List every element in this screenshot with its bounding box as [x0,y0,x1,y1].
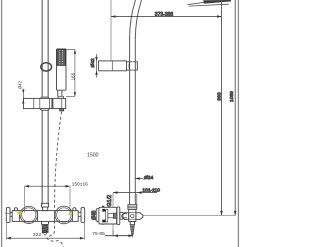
dim 101-110 [113,192,157,194]
left wing [122,213,129,220]
dim 373-386 [110,0,112,61]
escutcheon box [99,207,117,224]
hand shower outline [57,49,67,90]
mixer body [12,211,78,222]
center cross detail [129,211,136,213]
svg-text:Ø48: Ø48 [91,210,97,220]
svg-text:G1/2: G1/2 [107,195,113,207]
yellow indicator left [17,211,22,215]
body division lines [19,211,21,222]
left handle (temperature) [20,206,37,223]
holder end dimension Ø42 [22,89,24,103]
svg-text:933: 933 [217,92,223,100]
hose (dashed curve 1500) [47,112,63,247]
hand shower length dimension [66,49,75,51]
mixer right wall flange [81,208,85,223]
right wing [136,213,143,220]
dim 75-85 [105,235,133,237]
frame border left [1,0,3,247]
svg-text:1089: 1089 [229,91,235,102]
mixer bottom outlet stub [42,221,49,224]
mounting screws [102,209,105,212]
Ø48 arrows [102,206,105,209]
svg-text:Ø24: Ø24 [144,175,154,181]
cross fitting washer stack [128,205,137,210]
shower arm (top right) [187,2,204,4]
dim Ø24 (column) [135,178,143,180]
wall union flange disc (side view) [96,209,99,222]
slide bar (front view column) [41,0,43,205]
hand shower handle neck [58,90,62,96]
holder clamp collar [40,97,49,110]
union nut (side) [117,207,120,225]
mixer left wall flange [6,208,10,223]
column top bend [130,0,136,38]
svg-text:Ø42: Ø42 [17,80,22,89]
svg-text:150±16: 150±16 [72,181,89,187]
svg-text:373-386: 373-386 [155,12,174,18]
svg-text:165: 165 [71,72,76,80]
hatched nipple [113,213,117,219]
cross fitting body [129,209,136,221]
riser column (side view) [129,37,131,205]
svg-text:75-85: 75-85 [92,231,105,237]
reference line (wall datum at mixer) [143,214,236,216]
frame border right [237,0,239,247]
svg-text:Ø42: Ø42 [90,58,96,67]
yellow indicator right [69,212,72,216]
small left circle on body [14,208,17,211]
svg-text:1500: 1500 [87,152,99,158]
outlet hatched nut [42,224,48,232]
holder hose nipple [60,109,64,111]
dim line 933 [221,0,223,215]
overhead shower head edge-on [203,0,231,4]
hand shower spray head (knurled) [57,49,66,65]
bracket clamp on column [127,62,130,70]
dim Ø42 (bracket) [96,54,98,78]
bar foot collar on mixer [42,203,49,207]
mixer left union stub [10,211,14,213]
slider ring [41,63,52,71]
small right circle on body [73,208,76,211]
svg-text:322: 322 [33,232,41,238]
G1/2 leader line [112,193,114,236]
mixer right union stub [78,211,81,213]
dim 322 [6,237,84,239]
dim 150±16 [25,185,70,187]
holder bracket arm and socket [23,98,65,108]
inner T profile [106,210,108,222]
dim line 1089 [234,0,236,215]
wall bracket arm (side view) [99,61,127,71]
text labels (non stroked) [33,152,105,237]
right handle (flow) [55,206,73,224]
svg-text:101-110: 101-110 [142,187,160,193]
outlet taper below fitting [130,222,134,225]
